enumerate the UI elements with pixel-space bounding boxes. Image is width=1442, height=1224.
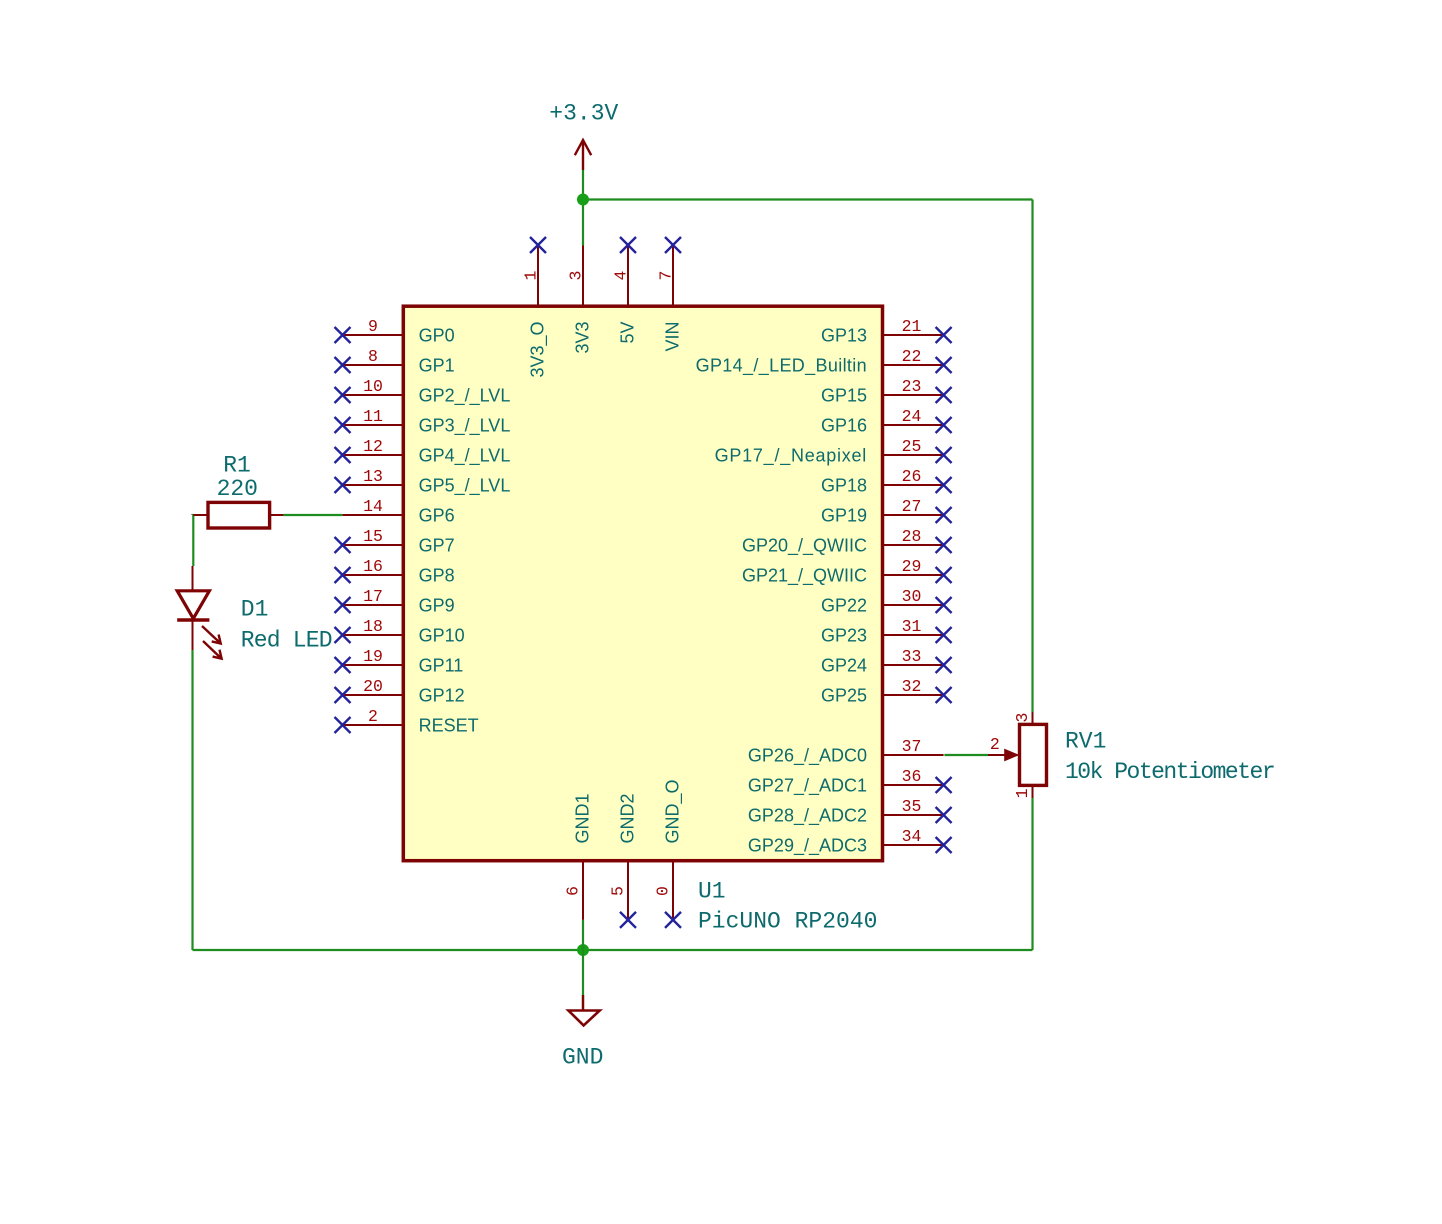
- pin 21 GP13: [821, 317, 952, 345]
- svg-text:RV1: RV1: [1065, 729, 1106, 755]
- junction +3.3V node: [577, 194, 589, 206]
- svg-text:3: 3: [567, 271, 586, 281]
- svg-text:1: 1: [1013, 788, 1032, 798]
- svg-text:GP21_/_QWIIC: GP21_/_QWIIC: [742, 565, 867, 586]
- ground: [562, 995, 603, 1071]
- svg-text:14: 14: [363, 497, 383, 516]
- svg-text:RESET: RESET: [419, 715, 479, 735]
- pin 0 GND_O: [654, 779, 684, 927]
- pin 11 GP3_/_LVL: [335, 407, 511, 436]
- pin 31 GP23: [821, 617, 952, 645]
- svg-text:37: 37: [902, 737, 922, 756]
- svg-text:15: 15: [363, 527, 383, 546]
- svg-text:GP19: GP19: [821, 505, 867, 525]
- svg-text:GP10: GP10: [419, 625, 465, 645]
- svg-text:R1: R1: [223, 453, 251, 479]
- svg-text:GP8: GP8: [419, 565, 455, 585]
- pin 30 GP22: [821, 587, 952, 615]
- svg-text:GP22: GP22: [821, 595, 867, 615]
- pin 28 GP20_/_QWIIC: [742, 527, 952, 556]
- pin 29 GP21_/_QWIIC: [742, 557, 952, 586]
- svg-text:GP27_/_ADC1: GP27_/_ADC1: [748, 775, 867, 796]
- pin 22 GP14_/_LED_Builtin: [696, 347, 952, 376]
- pin 16 GP8: [335, 557, 455, 585]
- svg-text:11: 11: [363, 407, 383, 426]
- svg-text:GP18: GP18: [821, 475, 867, 495]
- svg-text:31: 31: [902, 617, 922, 636]
- svg-text:GND: GND: [562, 1045, 603, 1071]
- pin 9 GP0: [335, 317, 455, 345]
- svg-text:36: 36: [902, 767, 922, 786]
- svg-text:GP9: GP9: [419, 595, 455, 615]
- svg-text:GP28_/_ADC2: GP28_/_ADC2: [748, 805, 867, 826]
- svg-text:GP29_/_ADC3: GP29_/_ADC3: [748, 835, 867, 856]
- svg-text:21: 21: [902, 317, 922, 336]
- svg-text:GND_O: GND_O: [663, 779, 684, 843]
- junction GND node: [577, 944, 589, 956]
- svg-text:22: 22: [902, 347, 922, 366]
- svg-text:10: 10: [363, 377, 383, 396]
- svg-text:13: 13: [363, 467, 383, 486]
- svg-text:GP0: GP0: [419, 325, 455, 345]
- svg-text:5: 5: [609, 886, 628, 896]
- svg-text:GP11: GP11: [419, 655, 464, 675]
- svg-text:8: 8: [368, 347, 378, 366]
- svg-text:D1: D1: [241, 597, 269, 623]
- pin 34 GP29_/_ADC3: [748, 827, 952, 856]
- svg-text:9: 9: [368, 317, 378, 336]
- svg-text:35: 35: [902, 797, 922, 816]
- pin 32 GP25: [821, 677, 952, 705]
- IC U1 PicUNO RP2040 body: [403, 306, 882, 861]
- svg-text:6: 6: [564, 886, 583, 896]
- svg-text:GP12: GP12: [419, 685, 465, 705]
- svg-text:23: 23: [902, 377, 922, 396]
- pin 36 GP27_/_ADC1: [748, 767, 952, 796]
- wire RV1 pin 1 down to GND rail: [1031, 798, 1033, 950]
- svg-text:GP15: GP15: [821, 385, 867, 405]
- pin 3 3V3: [567, 245, 593, 354]
- wire GP26 to RV1 wiper: [944, 754, 988, 756]
- wire +3.3V vertical to pin 3: [582, 170, 584, 246]
- svg-text:GP26_/_ADC0: GP26_/_ADC0: [748, 745, 867, 766]
- svg-text:3: 3: [1013, 713, 1032, 723]
- svg-text:20: 20: [363, 677, 383, 696]
- pin 14 GP6: [343, 497, 455, 525]
- svg-text:3V3_O: 3V3_O: [528, 322, 549, 378]
- pin 2 RESET: [335, 707, 479, 735]
- wire GND1 pin to GND rail: [582, 920, 584, 950]
- svg-text:GP4_/_LVL: GP4_/_LVL: [419, 445, 511, 466]
- svg-text:GND2: GND2: [618, 793, 638, 843]
- pin 20 GP12: [335, 677, 465, 705]
- svg-text:34: 34: [902, 827, 922, 846]
- svg-text:GP20_/_QWIIC: GP20_/_QWIIC: [742, 535, 867, 556]
- svg-text:32: 32: [902, 677, 922, 696]
- svg-text:12: 12: [363, 437, 383, 456]
- pin 35 GP28_/_ADC2: [748, 797, 952, 826]
- svg-text:GP16: GP16: [821, 415, 867, 435]
- svg-text:30: 30: [902, 587, 922, 606]
- svg-text:GP6: GP6: [419, 505, 455, 525]
- svg-text:7: 7: [657, 271, 676, 281]
- svg-text:GP3_/_LVL: GP3_/_LVL: [419, 415, 511, 436]
- wire R1 to GP6 pin 14: [283, 514, 342, 516]
- svg-text:GP23: GP23: [821, 625, 867, 645]
- svg-text:U1: U1: [698, 879, 726, 905]
- pin 18 GP10: [335, 617, 465, 645]
- svg-text:GP24: GP24: [821, 655, 867, 675]
- resistor R1 220: [193, 453, 283, 529]
- svg-text:Red LED: Red LED: [241, 628, 332, 654]
- svg-text:25: 25: [902, 437, 922, 456]
- pin 8 GP1: [335, 347, 455, 375]
- svg-text:GP13: GP13: [821, 325, 867, 345]
- svg-text:GP14_/_LED_Builtin: GP14_/_LED_Builtin: [696, 355, 867, 376]
- svg-text:+3.3V: +3.3V: [549, 101, 618, 127]
- pin 4 5V: [612, 237, 638, 344]
- pin 37 GP26_/_ADC0: [748, 737, 944, 766]
- svg-text:1: 1: [522, 271, 541, 281]
- pin 27 GP19: [821, 497, 952, 525]
- svg-text:26: 26: [902, 467, 922, 486]
- svg-text:33: 33: [902, 647, 922, 666]
- svg-text:GP25: GP25: [821, 685, 867, 705]
- svg-text:4: 4: [612, 271, 631, 281]
- svg-text:220: 220: [217, 476, 258, 502]
- pin 25 GP17_/_Neapixel: [715, 437, 952, 466]
- svg-text:GP2_/_LVL: GP2_/_LVL: [419, 385, 511, 406]
- svg-text:16: 16: [363, 557, 383, 576]
- wire GND horizontal rail: [193, 949, 1033, 951]
- pin 17 GP9: [335, 587, 455, 615]
- pin 1 3V3_O: [522, 237, 549, 378]
- svg-text:GP1: GP1: [419, 355, 455, 375]
- svg-text:GP5_/_LVL: GP5_/_LVL: [419, 475, 511, 496]
- pin 12 GP4_/_LVL: [335, 437, 511, 466]
- wire LED D1 cathode to GND rail: [191, 650, 193, 950]
- svg-text:GP7: GP7: [419, 535, 455, 555]
- svg-text:GND1: GND1: [573, 793, 593, 843]
- svg-text:PicUNO RP2040: PicUNO RP2040: [698, 909, 877, 935]
- pin 15 GP7: [335, 527, 455, 555]
- svg-text:10k Potentiometer: 10k Potentiometer: [1065, 759, 1274, 785]
- pin 19 GP11: [335, 647, 464, 675]
- svg-text:2: 2: [990, 735, 1000, 754]
- svg-text:0: 0: [654, 886, 673, 896]
- potentiometer RV1 10k: [988, 712, 1274, 798]
- pin 10 GP2_/_LVL: [335, 377, 511, 406]
- pin 6 GND1: [564, 793, 593, 919]
- pin 26 GP18: [821, 467, 952, 495]
- ground GND symbol: [582, 950, 584, 1011]
- svg-text:2: 2: [368, 707, 378, 726]
- pin 23 GP15: [821, 377, 952, 405]
- svg-text:19: 19: [363, 647, 383, 666]
- pin 24 GP16: [821, 407, 952, 435]
- pin 7 VIN: [657, 237, 683, 352]
- pin 33 GP24: [821, 647, 952, 675]
- U1 reference and value labels: [698, 879, 877, 935]
- svg-text:29: 29: [902, 557, 922, 576]
- wire +3.3V horizontal rail: [583, 198, 1033, 200]
- svg-text:17: 17: [363, 587, 383, 606]
- svg-text:27: 27: [902, 497, 922, 516]
- svg-text:3V3: 3V3: [573, 322, 593, 354]
- power symbol +3.3V: [549, 101, 618, 171]
- wire right rail down to RV1 pin 3: [1031, 200, 1033, 713]
- wire resistor R1 to LED D1: [191, 514, 194, 566]
- svg-text:GP17_/_Neapixel: GP17_/_Neapixel: [715, 445, 867, 466]
- LED D1 Red LED: [177, 566, 332, 659]
- svg-text:24: 24: [902, 407, 922, 426]
- svg-text:18: 18: [363, 617, 383, 636]
- pin 13 GP5_/_LVL: [335, 467, 511, 496]
- svg-text:28: 28: [902, 527, 922, 546]
- svg-text:VIN: VIN: [663, 322, 683, 352]
- svg-text:5V: 5V: [618, 322, 638, 344]
- pin 5 GND2: [609, 793, 638, 927]
